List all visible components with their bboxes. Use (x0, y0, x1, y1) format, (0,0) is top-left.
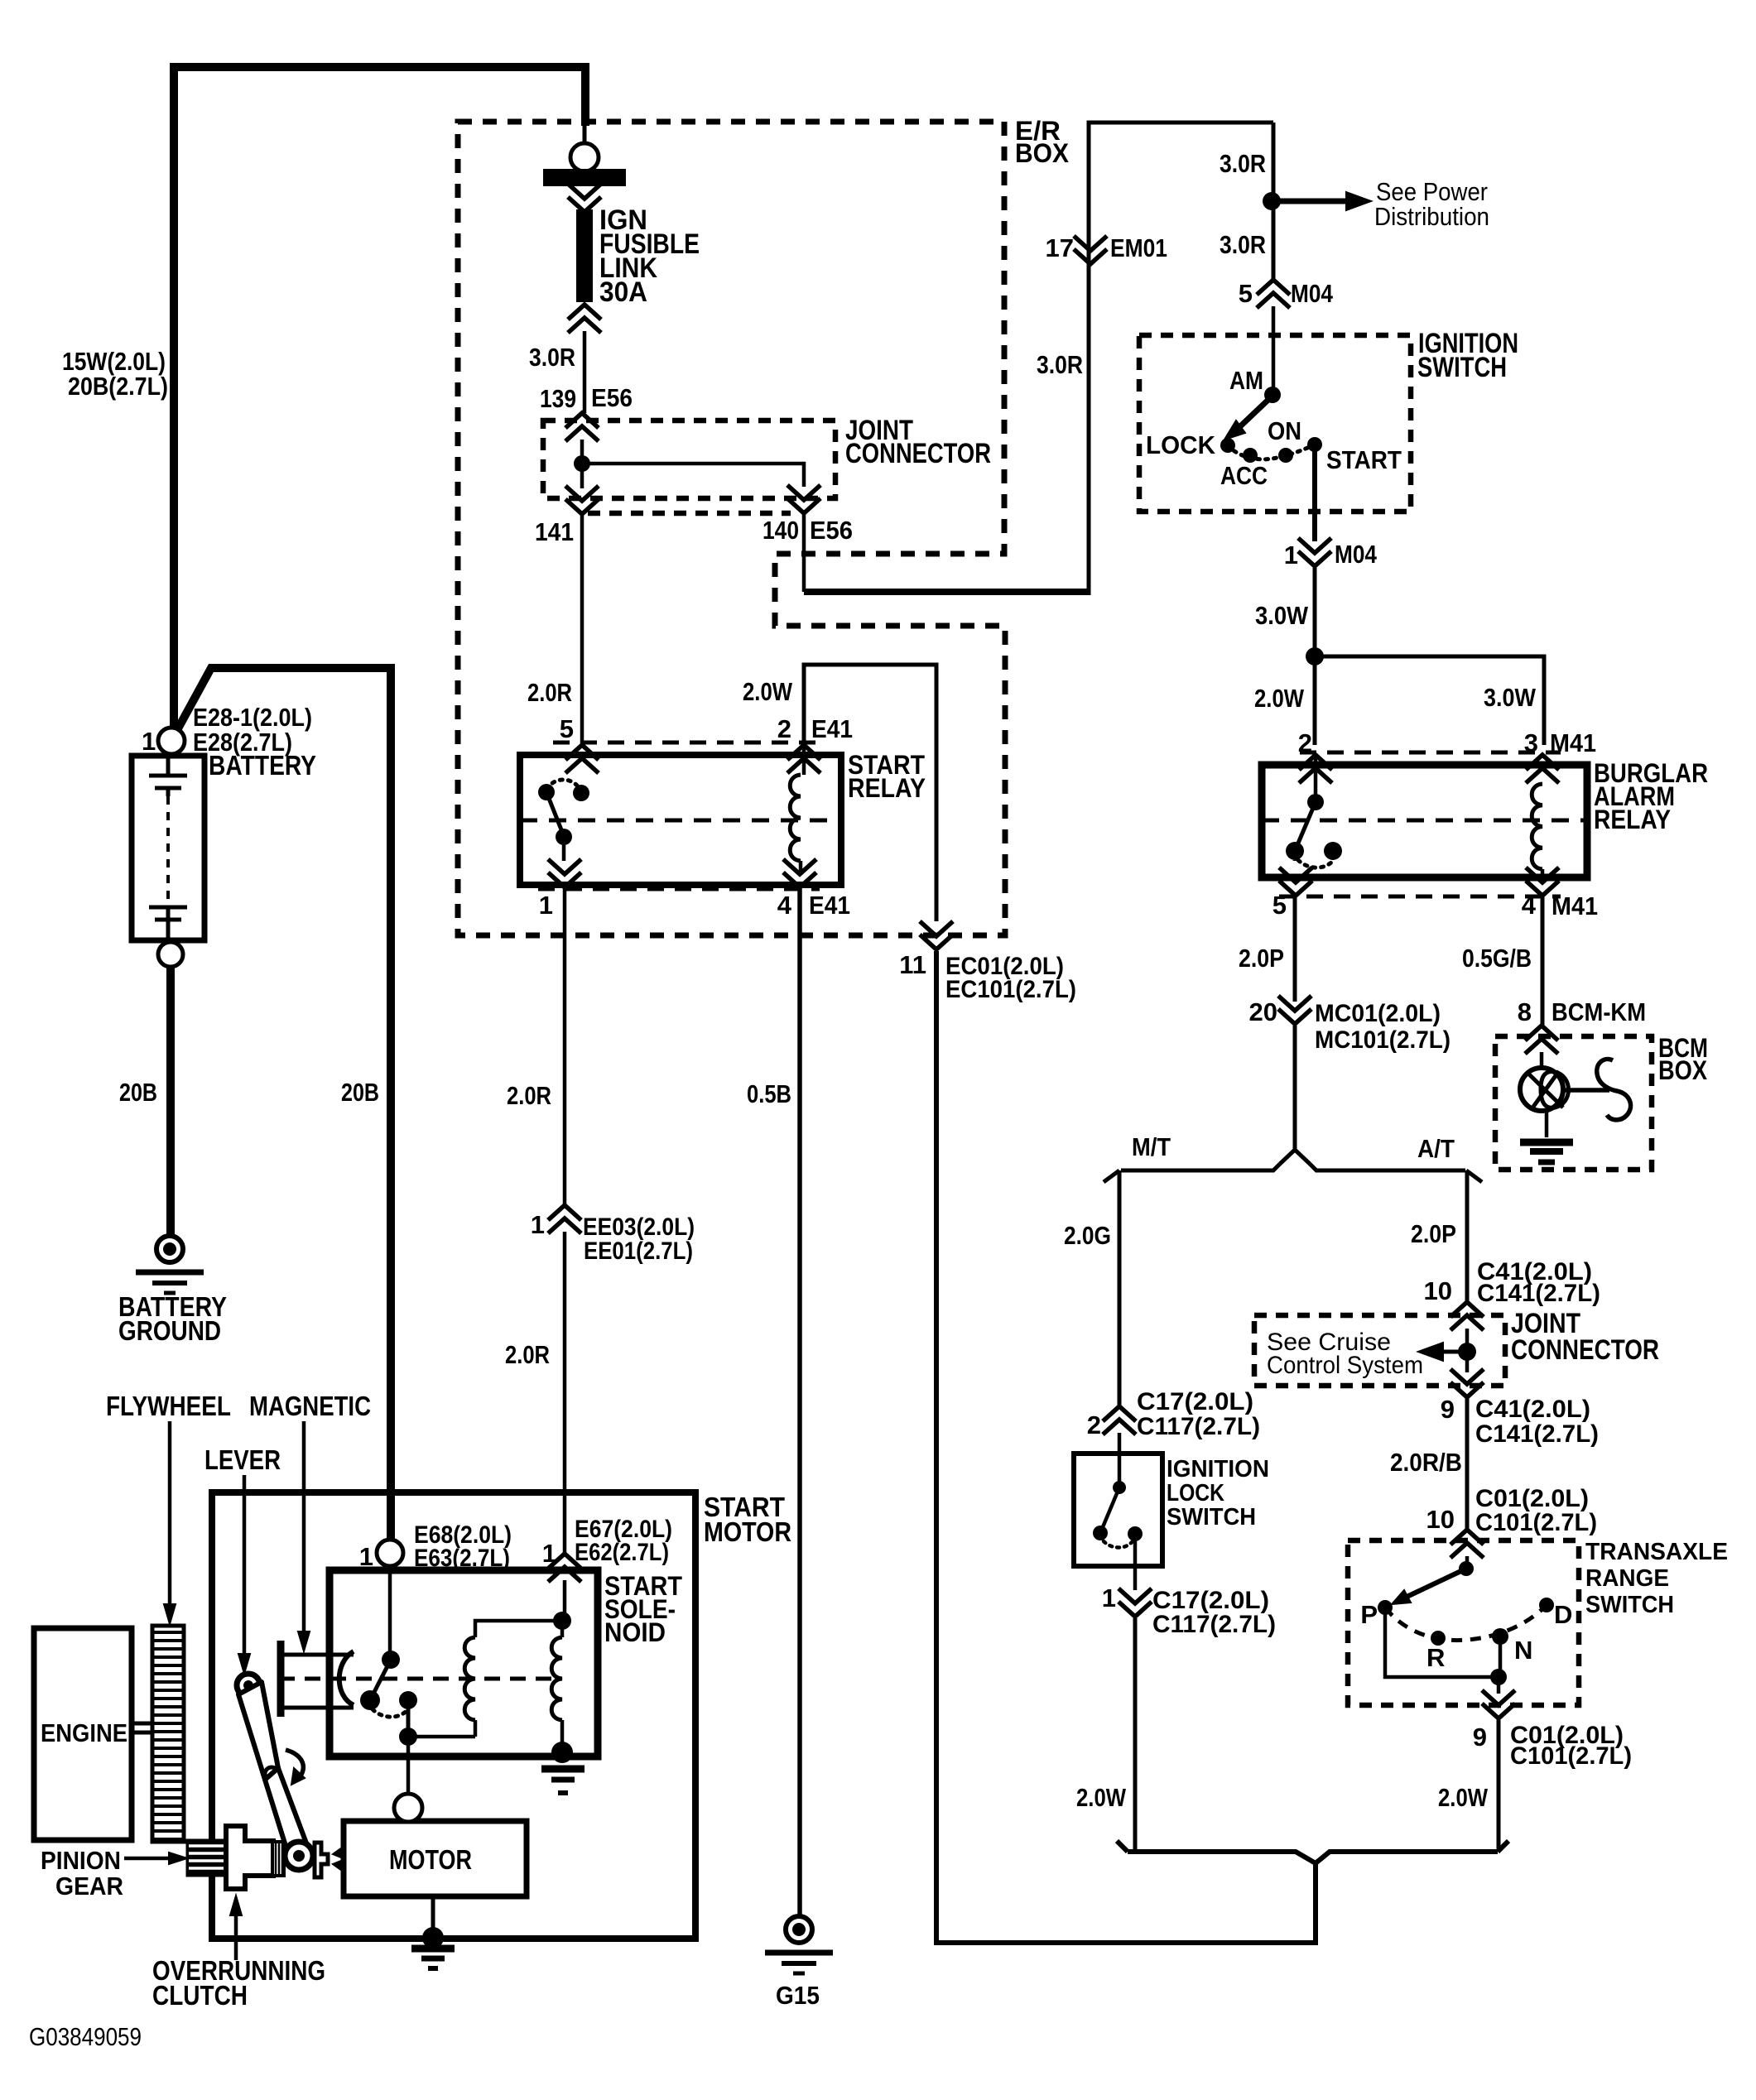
wire solenoid output to junction (407, 1700, 411, 1737)
burglar relay alternate contact dot (1324, 842, 1342, 860)
svg-text:2.0R: 2.0R (507, 1081, 551, 1110)
transaxle position dashed arc (1385, 1605, 1547, 1641)
svg-text:CONNECTOR: CONNECTOR (845, 438, 991, 469)
svg-text:RELAY: RELAY (848, 773, 926, 803)
solenoid switch feed wire from E68 (388, 1566, 392, 1651)
svg-text:8: 8 (1518, 997, 1532, 1026)
svg-text:MOTOR: MOTOR (389, 1844, 472, 1875)
connector C17 pin 1 chevron (1119, 1588, 1152, 1603)
svg-text:C41(2.0L): C41(2.0L) (1475, 1396, 1590, 1423)
svg-text:C17(2.0L): C17(2.0L) (1137, 1388, 1253, 1415)
wire thick elbow to EM01 riser (804, 589, 1089, 595)
see cruise arrow (1444, 1350, 1467, 1354)
pinion gear block (187, 1840, 229, 1876)
connector BCM-KM pin 8 chevron (1525, 1039, 1558, 1054)
burglar relay coil (1532, 784, 1542, 869)
solenoid coil feed junction dot (553, 1612, 571, 1630)
relay dashed pin line bottom M41 (1279, 895, 1561, 899)
connector EM01 pin 17 chevron (1074, 236, 1107, 251)
svg-text:SWITCH: SWITCH (1167, 1504, 1256, 1531)
svg-text:141: 141 (535, 517, 574, 546)
wire pin5 stub (1293, 860, 1297, 861)
svg-text:FLYWHEEL: FLYWHEEL (106, 1391, 231, 1421)
extra dashed boundary segment below joint connector (588, 511, 791, 517)
transaxle R dot (1431, 1631, 1446, 1646)
ignition switch ON dot (1278, 448, 1293, 463)
hold-in coil bottom stub (474, 1720, 478, 1737)
overrunning clutch splined shaft (272, 1842, 284, 1876)
transaxle rotor arm (1403, 1569, 1466, 1598)
transaxle rotor pivot dot (1459, 1561, 1474, 1576)
wire into ignition lock switch (1118, 1433, 1122, 1487)
wire EC01 long run down to bottom bus (936, 951, 1316, 1943)
solenoid plunger yoke top line (279, 1653, 354, 1657)
wire START output down (1312, 445, 1317, 541)
svg-text:1: 1 (542, 1539, 556, 1568)
svg-text:CONNECTOR: CONNECTOR (1511, 1334, 1659, 1366)
MOTOR box (344, 1821, 527, 1896)
wire relay pin2 internal (802, 743, 806, 775)
svg-text:11: 11 (899, 950, 926, 979)
svg-text:RELAY: RELAY (1594, 805, 1671, 834)
wire N to junction (1499, 1636, 1503, 1677)
fusible link terminal circle (570, 143, 599, 171)
svg-text:1: 1 (539, 891, 553, 920)
BCM key-reminder buzzer circle (1520, 1068, 1563, 1111)
bus left end tick (1117, 1841, 1128, 1852)
svg-text:3.0R: 3.0R (1220, 230, 1266, 259)
connector M04 pin 1 chevron (1298, 538, 1331, 553)
connector E56 pin 139 chevron (565, 426, 599, 441)
start relay dashed pin line bottom E41 (538, 887, 820, 891)
connector chevron below fusible link (568, 318, 601, 333)
wire junction to hold-in coil (408, 1735, 475, 1739)
connector C01 pin 10 chevron (1451, 1543, 1484, 1558)
svg-text:LEVER: LEVER (204, 1444, 281, 1475)
svg-text:PINION: PINION (41, 1846, 121, 1875)
solenoid switch upper contact dot (382, 1651, 400, 1669)
connector E41 pin 4 chevron (783, 859, 816, 874)
svg-text:TRANSAXLE: TRANSAXLE (1585, 1539, 1728, 1565)
start relay dashed pin line top E41 (553, 741, 818, 745)
svg-text:ENGINE: ENGINE (41, 1718, 127, 1747)
wire E56-141 to start relay pin 5 (2.0R) (580, 514, 585, 745)
transaxle output junction dot (1490, 1669, 1507, 1685)
svg-text:CLUTCH: CLUTCH (152, 1980, 248, 2011)
battery ground symbol (156, 1236, 183, 1262)
svg-text:E62(2.7L): E62(2.7L) (575, 1539, 669, 1566)
wire P to bottom rail (1385, 1607, 1499, 1677)
solenoid plunger cap bar (277, 1641, 285, 1717)
burglar feed junction dot (1306, 647, 1324, 666)
svg-text:17: 17 (1046, 233, 1074, 262)
svg-text:20B: 20B (341, 1078, 379, 1107)
solenoid hold-in coil (464, 1637, 475, 1720)
svg-text:G15: G15 (776, 1981, 820, 2010)
connector E68 terminal circle pin 1 (377, 1540, 403, 1566)
lever elbow hole (265, 1767, 278, 1780)
lever pointer arrow (243, 1475, 247, 1665)
svg-text:IGNITION: IGNITION (1167, 1456, 1269, 1482)
wire C41-9 down (2.0R/B) (1465, 1397, 1470, 1531)
ignition lock switch dotted arc (1104, 1541, 1133, 1548)
overrunning clutch pointer arrow (234, 1904, 238, 1960)
connector E56 pin 140 chevron (787, 485, 820, 500)
svg-text:A/T: A/T (1417, 1134, 1455, 1163)
fork left tick (1104, 1170, 1119, 1182)
wire M04-1 down to junction (3.0W) (1313, 568, 1317, 656)
connector C41 pin 9 chevron (1451, 1369, 1484, 1384)
burglar relay switch blade (1295, 802, 1316, 851)
svg-text:10: 10 (1424, 1276, 1452, 1305)
BCM buzzer cross lines (1527, 1073, 1563, 1108)
svg-text:M04: M04 (1291, 279, 1334, 308)
connector C41 pin 10 chevron (1451, 1315, 1484, 1330)
svg-text:BCM-KM: BCM-KM (1552, 997, 1646, 1026)
wire coil junction to pull-in coil (560, 1621, 565, 1637)
connector M41 pin 5 chevron (1279, 867, 1312, 882)
ENGINE box (34, 1628, 132, 1840)
battery negative terminal circle (158, 942, 183, 967)
svg-text:EE01(2.7L): EE01(2.7L) (584, 1237, 693, 1265)
wire MC01 down to M/T-A/T fork (1293, 1026, 1297, 1151)
svg-text:30A: 30A (599, 276, 647, 308)
svg-text:3.0R: 3.0R (1220, 149, 1266, 178)
svg-text:ACC: ACC (1220, 461, 1268, 490)
svg-text:3.0R: 3.0R (1037, 350, 1083, 379)
burglar relay internal dashed centreline (1262, 819, 1587, 823)
svg-text:3.0W: 3.0W (1255, 601, 1309, 630)
see power distribution arrow (1280, 199, 1348, 204)
svg-text:RANGE: RANGE (1585, 1565, 1669, 1592)
wire C01-9 down to bus (2.0W) (1497, 1720, 1501, 1849)
svg-text:E56: E56 (591, 383, 633, 412)
transaxle D dot (1539, 1598, 1554, 1612)
svg-text:M41: M41 (1552, 891, 1598, 920)
svg-text:C101(2.7L): C101(2.7L) (1510, 1742, 1632, 1770)
svg-text:N: N (1514, 1636, 1532, 1665)
svg-text:3.0W: 3.0W (1484, 683, 1537, 712)
solenoid plunger yoke bottom line (279, 1706, 354, 1710)
wire relay pin1 down (2.0R) (563, 888, 567, 1206)
flywheel pointer arrow (168, 1421, 172, 1614)
ignition switch AM contact dot (1264, 387, 1281, 403)
svg-text:5: 5 (1239, 279, 1253, 308)
connector EC01 pin 11 chevron (920, 921, 953, 936)
svg-text:139: 139 (540, 384, 576, 413)
svg-text:3.0R: 3.0R (529, 343, 575, 372)
svg-text:AM: AM (1229, 366, 1263, 395)
svg-text:MAGNETIC: MAGNETIC (249, 1391, 371, 1421)
BCM buzzer curl (1597, 1059, 1631, 1119)
wire relay pin4 down (0.5G/B) (1541, 896, 1545, 1026)
lever rotation arrow (286, 1750, 303, 1780)
solenoid switch moving dot (360, 1690, 380, 1710)
svg-text:20B: 20B (119, 1078, 157, 1107)
start relay coil (790, 775, 801, 861)
svg-text:4: 4 (1522, 891, 1537, 920)
lever end circle (285, 1842, 313, 1870)
BCM BOX dashed outline (1495, 1036, 1652, 1170)
wire BCM buzzer to ground (1545, 1112, 1549, 1137)
wire fusible link to joint connector (3.0R) (583, 331, 587, 413)
shift fork motion arrows (333, 1846, 344, 1857)
wire relay pin5 down (2.0P) (1293, 896, 1297, 1002)
lever pivot circle (237, 1674, 260, 1697)
svg-text:GROUND: GROUND (118, 1315, 221, 1346)
motor ground symbol (411, 1945, 455, 1953)
svg-text:5: 5 (1272, 891, 1287, 920)
wire start relay pin4 to G15 ground (0.5B) (797, 888, 802, 1918)
svg-text:20: 20 (1249, 997, 1277, 1026)
wire 3.0R ignition feed down from top (1272, 123, 1276, 281)
BCM buzzer lens (1541, 1072, 1569, 1108)
svg-text:MC01(2.0L): MC01(2.0L) (1315, 1000, 1441, 1027)
see power distribution junction dot (1263, 192, 1281, 210)
shift fork piece (315, 1843, 328, 1877)
ignition lock switch common dot (1113, 1481, 1126, 1494)
connector M41 pin 4 chevron (1526, 867, 1559, 882)
svg-text:4: 4 (777, 891, 792, 920)
svg-text:2.0P: 2.0P (1239, 944, 1284, 973)
svg-text:2: 2 (1087, 1410, 1101, 1439)
svg-text:START: START (1326, 445, 1402, 474)
svg-text:9: 9 (1441, 1395, 1455, 1424)
solenoid case ground dot (551, 1742, 573, 1763)
svg-text:9: 9 (1473, 1723, 1487, 1752)
ignition lock switch box (1074, 1454, 1162, 1566)
lever lower arm (265, 1768, 308, 1859)
transaxle P contact dot (1378, 1600, 1393, 1615)
solenoid pull-in coil (551, 1637, 562, 1720)
svg-text:2.0W: 2.0W (743, 677, 793, 706)
ignition lock switch output dot (1128, 1526, 1143, 1541)
svg-text:1: 1 (531, 1210, 545, 1239)
svg-text:2.0P: 2.0P (1411, 1219, 1456, 1248)
svg-text:LOCK: LOCK (1146, 430, 1216, 459)
svg-text:M41: M41 (1550, 728, 1596, 757)
start motor box (212, 1492, 695, 1939)
connector EE03 pin 1 chevron (548, 1218, 581, 1233)
ignition switch LOCK dot (1220, 438, 1235, 453)
joint connector dashed box (543, 420, 835, 498)
wire transaxle output down (1497, 1677, 1501, 1694)
ignition switch position dotted arc (1228, 445, 1315, 459)
svg-text:EM01: EM01 (1110, 233, 1167, 262)
svg-text:1: 1 (1284, 541, 1298, 569)
svg-text:E56: E56 (810, 516, 853, 545)
wire joint connector jumper to pin 140 (582, 464, 804, 487)
svg-text:0.5B: 0.5B (747, 1079, 791, 1108)
svg-text:SWITCH: SWITCH (1585, 1592, 1674, 1618)
svg-text:EC101(2.7L): EC101(2.7L) (945, 976, 1076, 1003)
IGN fusible link 30A body (577, 210, 592, 301)
svg-text:1: 1 (142, 727, 156, 756)
wire through joint connector 2 (1465, 1329, 1470, 1372)
svg-text:R: R (1426, 1643, 1445, 1672)
wire EM01 riser up and over to ignition feed (1089, 123, 1273, 595)
ignition switch dashed box (1139, 335, 1411, 512)
magnetic pointer arrow (302, 1421, 306, 1642)
solenoid switch dotted arc (373, 1709, 407, 1717)
bus right end tick (1498, 1841, 1508, 1852)
BCM buzzer lead (1565, 1088, 1609, 1093)
wire A/T branch down (2.0P) (1465, 1170, 1470, 1303)
start relay switch output dot (556, 829, 572, 845)
battery internal plates symbol (166, 754, 171, 776)
wire E67 to coil junction (563, 1580, 567, 1621)
wire fusible link lead-in (583, 126, 587, 143)
burglar relay switch common dot (1307, 794, 1324, 810)
wire relay pin1 stub (562, 845, 566, 861)
connector E67 pin 1 chevron (548, 1567, 581, 1582)
wire pull-in coil to case ground (560, 1720, 565, 1750)
svg-text:3: 3 (1524, 728, 1538, 757)
wire relay coil to pin 4 (799, 861, 803, 874)
svg-text:P: P (1360, 1600, 1378, 1629)
ignition switch START dot (1307, 437, 1322, 452)
engine crankshaft links (132, 1722, 152, 1726)
connector C17 pin 2 chevron (1103, 1420, 1136, 1434)
connector chevron below fusible-link bar (568, 184, 601, 199)
wire junction over to relay pin 3 (3.0W) (1315, 656, 1544, 745)
wire into transaxle switch (1465, 1556, 1470, 1569)
svg-text:C117(2.7L): C117(2.7L) (1137, 1413, 1260, 1440)
start relay switch common dot (573, 785, 589, 801)
svg-text:0.5G/B: 0.5G/B (1462, 944, 1532, 973)
svg-text:LOCK: LOCK (1167, 1480, 1224, 1507)
start relay switch dotted alternate position arc (546, 780, 581, 793)
connector MC01 pin 20 chevron (1278, 996, 1311, 1011)
wire M04 to ignition switch AM (1272, 306, 1276, 396)
solenoid switch blade (371, 1660, 391, 1699)
motor terminal circle (394, 1794, 422, 1822)
svg-text:C141(2.7L): C141(2.7L) (1477, 1280, 1600, 1307)
connector M04 pin 5 chevron (1257, 293, 1290, 308)
wire battery branch to start motor (thick 20B) (177, 668, 391, 1540)
solenoid output junction dot (399, 1728, 417, 1746)
svg-text:2: 2 (1298, 728, 1312, 757)
svg-text:C117(2.7L): C117(2.7L) (1152, 1611, 1276, 1638)
E/R BOX dashed outline (458, 122, 1005, 935)
svg-text:GEAR: GEAR (55, 1872, 123, 1901)
svg-text:2.0R: 2.0R (527, 678, 572, 707)
solenoid ground symbol (541, 1766, 585, 1773)
ignition lock switch moving dot (1093, 1526, 1108, 1540)
solenoid switch output dot (399, 1691, 417, 1709)
svg-text:2.0R/B: 2.0R/B (1390, 1448, 1462, 1477)
relay dashed pin line top M41 (1300, 751, 1561, 755)
start relay internal dashed centreline (520, 819, 841, 823)
burglar relay switch moving dot (1286, 842, 1304, 860)
svg-text:2: 2 (777, 714, 791, 743)
ignition switch ACC dot (1243, 448, 1258, 463)
fork right tick (1466, 1170, 1482, 1182)
svg-text:BOX: BOX (1658, 1055, 1708, 1085)
bottom merge bus (1128, 1852, 1498, 1863)
svg-text:BOX: BOX (1015, 138, 1070, 168)
svg-text:2.0W: 2.0W (1438, 1783, 1489, 1812)
wire pin2 internal stub (1314, 753, 1318, 802)
svg-text:2.0G: 2.0G (1064, 1221, 1111, 1250)
flywheel ring gear rack (152, 1626, 184, 1842)
svg-text:G03849059: G03849059 (29, 2022, 142, 2051)
svg-text:2.0W: 2.0W (1076, 1783, 1127, 1812)
svg-text:M04: M04 (1335, 540, 1378, 569)
svg-text:5: 5 (560, 714, 574, 743)
node junction dot in joint connector (574, 455, 590, 472)
battery B1 box (132, 756, 204, 940)
wire start relay pin2 to EC01 staple (2.0W) (804, 665, 936, 921)
wire into BCM buzzer (1540, 1052, 1544, 1069)
connector E56 pin 141 chevron (565, 486, 599, 501)
connector M41 pin 3 chevron (1526, 768, 1559, 783)
svg-text:ON: ON (1268, 416, 1301, 445)
solenoid plunger crescent (339, 1651, 354, 1705)
lever upper arm (238, 1682, 278, 1780)
battery B+ terminal circle pin 1 (158, 728, 185, 754)
start solenoid box (330, 1570, 598, 1756)
svg-text:Distribution: Distribution (1374, 202, 1489, 231)
wire EE03 to start solenoid (2.0R) (563, 1232, 567, 1554)
motor ground dot (422, 1927, 444, 1949)
joint connector 2 dashed box (1254, 1315, 1505, 1386)
connector E41 pin 5 chevron (565, 758, 599, 773)
start relay switch blade (546, 792, 564, 836)
svg-text:E41: E41 (811, 714, 853, 743)
svg-text:1: 1 (1102, 1583, 1116, 1612)
ignition lock switch blade (1100, 1487, 1119, 1533)
burglar relay dotted alternate arc (1298, 860, 1333, 867)
wire E56-140 down to elbow (802, 513, 806, 592)
svg-text:SWITCH: SWITCH (1417, 352, 1507, 383)
fusible link terminal bar (544, 170, 625, 185)
svg-text:20B(2.7L): 20B(2.7L) (68, 372, 168, 401)
motor ground wire (431, 1896, 435, 1934)
overrunning clutch body (226, 1826, 273, 1889)
svg-text:D: D (1554, 1600, 1572, 1629)
wire hold-in coil top (475, 1621, 562, 1637)
svg-text:E41: E41 (809, 891, 850, 920)
wire fork split M/T - A/T (1280, 1150, 1310, 1164)
svg-text:MC101(2.7L): MC101(2.7L) (1315, 1026, 1451, 1054)
wire battery negative to ground (thick 20B) (166, 967, 175, 1237)
svg-text:BATTERY: BATTERY (209, 750, 316, 781)
wire junction to motor terminal (407, 1737, 411, 1796)
wire battery positive feed (thick, battery to fusible link) (174, 67, 585, 728)
svg-text:Control System: Control System (1267, 1352, 1423, 1379)
connector M41 pin 2 chevron (1299, 768, 1332, 783)
transaxle N dot (1492, 1628, 1508, 1645)
burglar alarm relay box (1262, 765, 1587, 877)
start relay switch moving contact dot (538, 784, 555, 800)
pinion pointer arrow (124, 1857, 176, 1861)
svg-text:MOTOR: MOTOR (704, 1516, 791, 1547)
svg-text:C101(2.7L): C101(2.7L) (1475, 1509, 1597, 1536)
wire lock switch output down (1133, 1534, 1138, 1590)
connector E41 pin 1 chevron (548, 859, 581, 874)
connector C01 pin 9 chevron (1482, 1690, 1515, 1705)
wire C17 down to bus (2.0W) (1133, 1618, 1138, 1849)
svg-text:M/T: M/T (1132, 1132, 1171, 1161)
solenoid dashed centreline (279, 1677, 556, 1681)
svg-text:2.0R: 2.0R (505, 1340, 550, 1369)
connector E41 pin 2 chevron (787, 758, 820, 773)
BCM internal ground (1520, 1139, 1573, 1146)
ground G15 symbol (786, 1916, 812, 1943)
svg-text:C141(2.7L): C141(2.7L) (1475, 1420, 1599, 1448)
joint connector 2 junction dot (1458, 1343, 1476, 1361)
